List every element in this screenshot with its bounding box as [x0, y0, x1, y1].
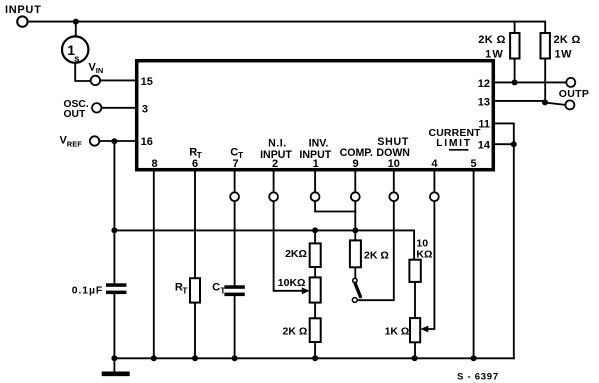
svg-text:T: T [182, 286, 188, 296]
svg-text:4: 4 [431, 158, 438, 170]
svg-text:14: 14 [478, 140, 491, 152]
svg-text:16: 16 [141, 136, 153, 148]
svg-text:INPUT: INPUT [5, 4, 42, 16]
svg-text:12: 12 [478, 78, 490, 90]
svg-text:2K Ω: 2K Ω [364, 249, 389, 261]
svg-text:T: T [238, 150, 244, 160]
svg-text:8: 8 [151, 158, 157, 170]
svg-text:OUTP: OUTP [559, 88, 589, 100]
svg-text:2K Ω: 2K Ω [283, 325, 308, 337]
svg-text:2K Ω: 2K Ω [478, 34, 506, 46]
svg-text:1W: 1W [485, 48, 504, 60]
svg-text:C: C [212, 281, 220, 293]
svg-text:1K Ω: 1K Ω [385, 325, 410, 337]
svg-text:IN: IN [96, 66, 104, 75]
svg-text:2K Ω: 2K Ω [554, 34, 581, 46]
svg-text:LIMIT: LIMIT [436, 138, 472, 149]
svg-text:T: T [220, 286, 226, 296]
svg-text:7: 7 [232, 158, 238, 170]
svg-text:10: 10 [416, 237, 428, 249]
svg-text:OUT: OUT [64, 109, 86, 120]
svg-text:REF: REF [67, 139, 82, 148]
svg-text:10: 10 [388, 158, 400, 170]
svg-text:5: 5 [471, 158, 477, 170]
svg-text:s: s [74, 53, 79, 64]
svg-text:2KΩ: 2KΩ [285, 248, 307, 260]
svg-text:9: 9 [352, 158, 358, 170]
svg-text:13: 13 [478, 97, 490, 109]
svg-text:C: C [230, 146, 238, 158]
svg-text:3: 3 [142, 104, 148, 116]
svg-text:10KΩ: 10KΩ [278, 277, 306, 289]
svg-text:6: 6 [192, 158, 198, 170]
svg-text:N.I.: N.I. [268, 137, 286, 149]
svg-text:1: 1 [313, 158, 319, 170]
svg-text:0.1µF: 0.1µF [72, 285, 103, 296]
svg-text:INV.: INV. [309, 137, 329, 149]
svg-text:KΩ: KΩ [416, 249, 432, 261]
svg-text:15: 15 [141, 76, 153, 88]
svg-text:1W: 1W [555, 48, 573, 60]
svg-text:2: 2 [272, 158, 278, 170]
svg-text:S - 6397: S - 6397 [457, 371, 499, 382]
